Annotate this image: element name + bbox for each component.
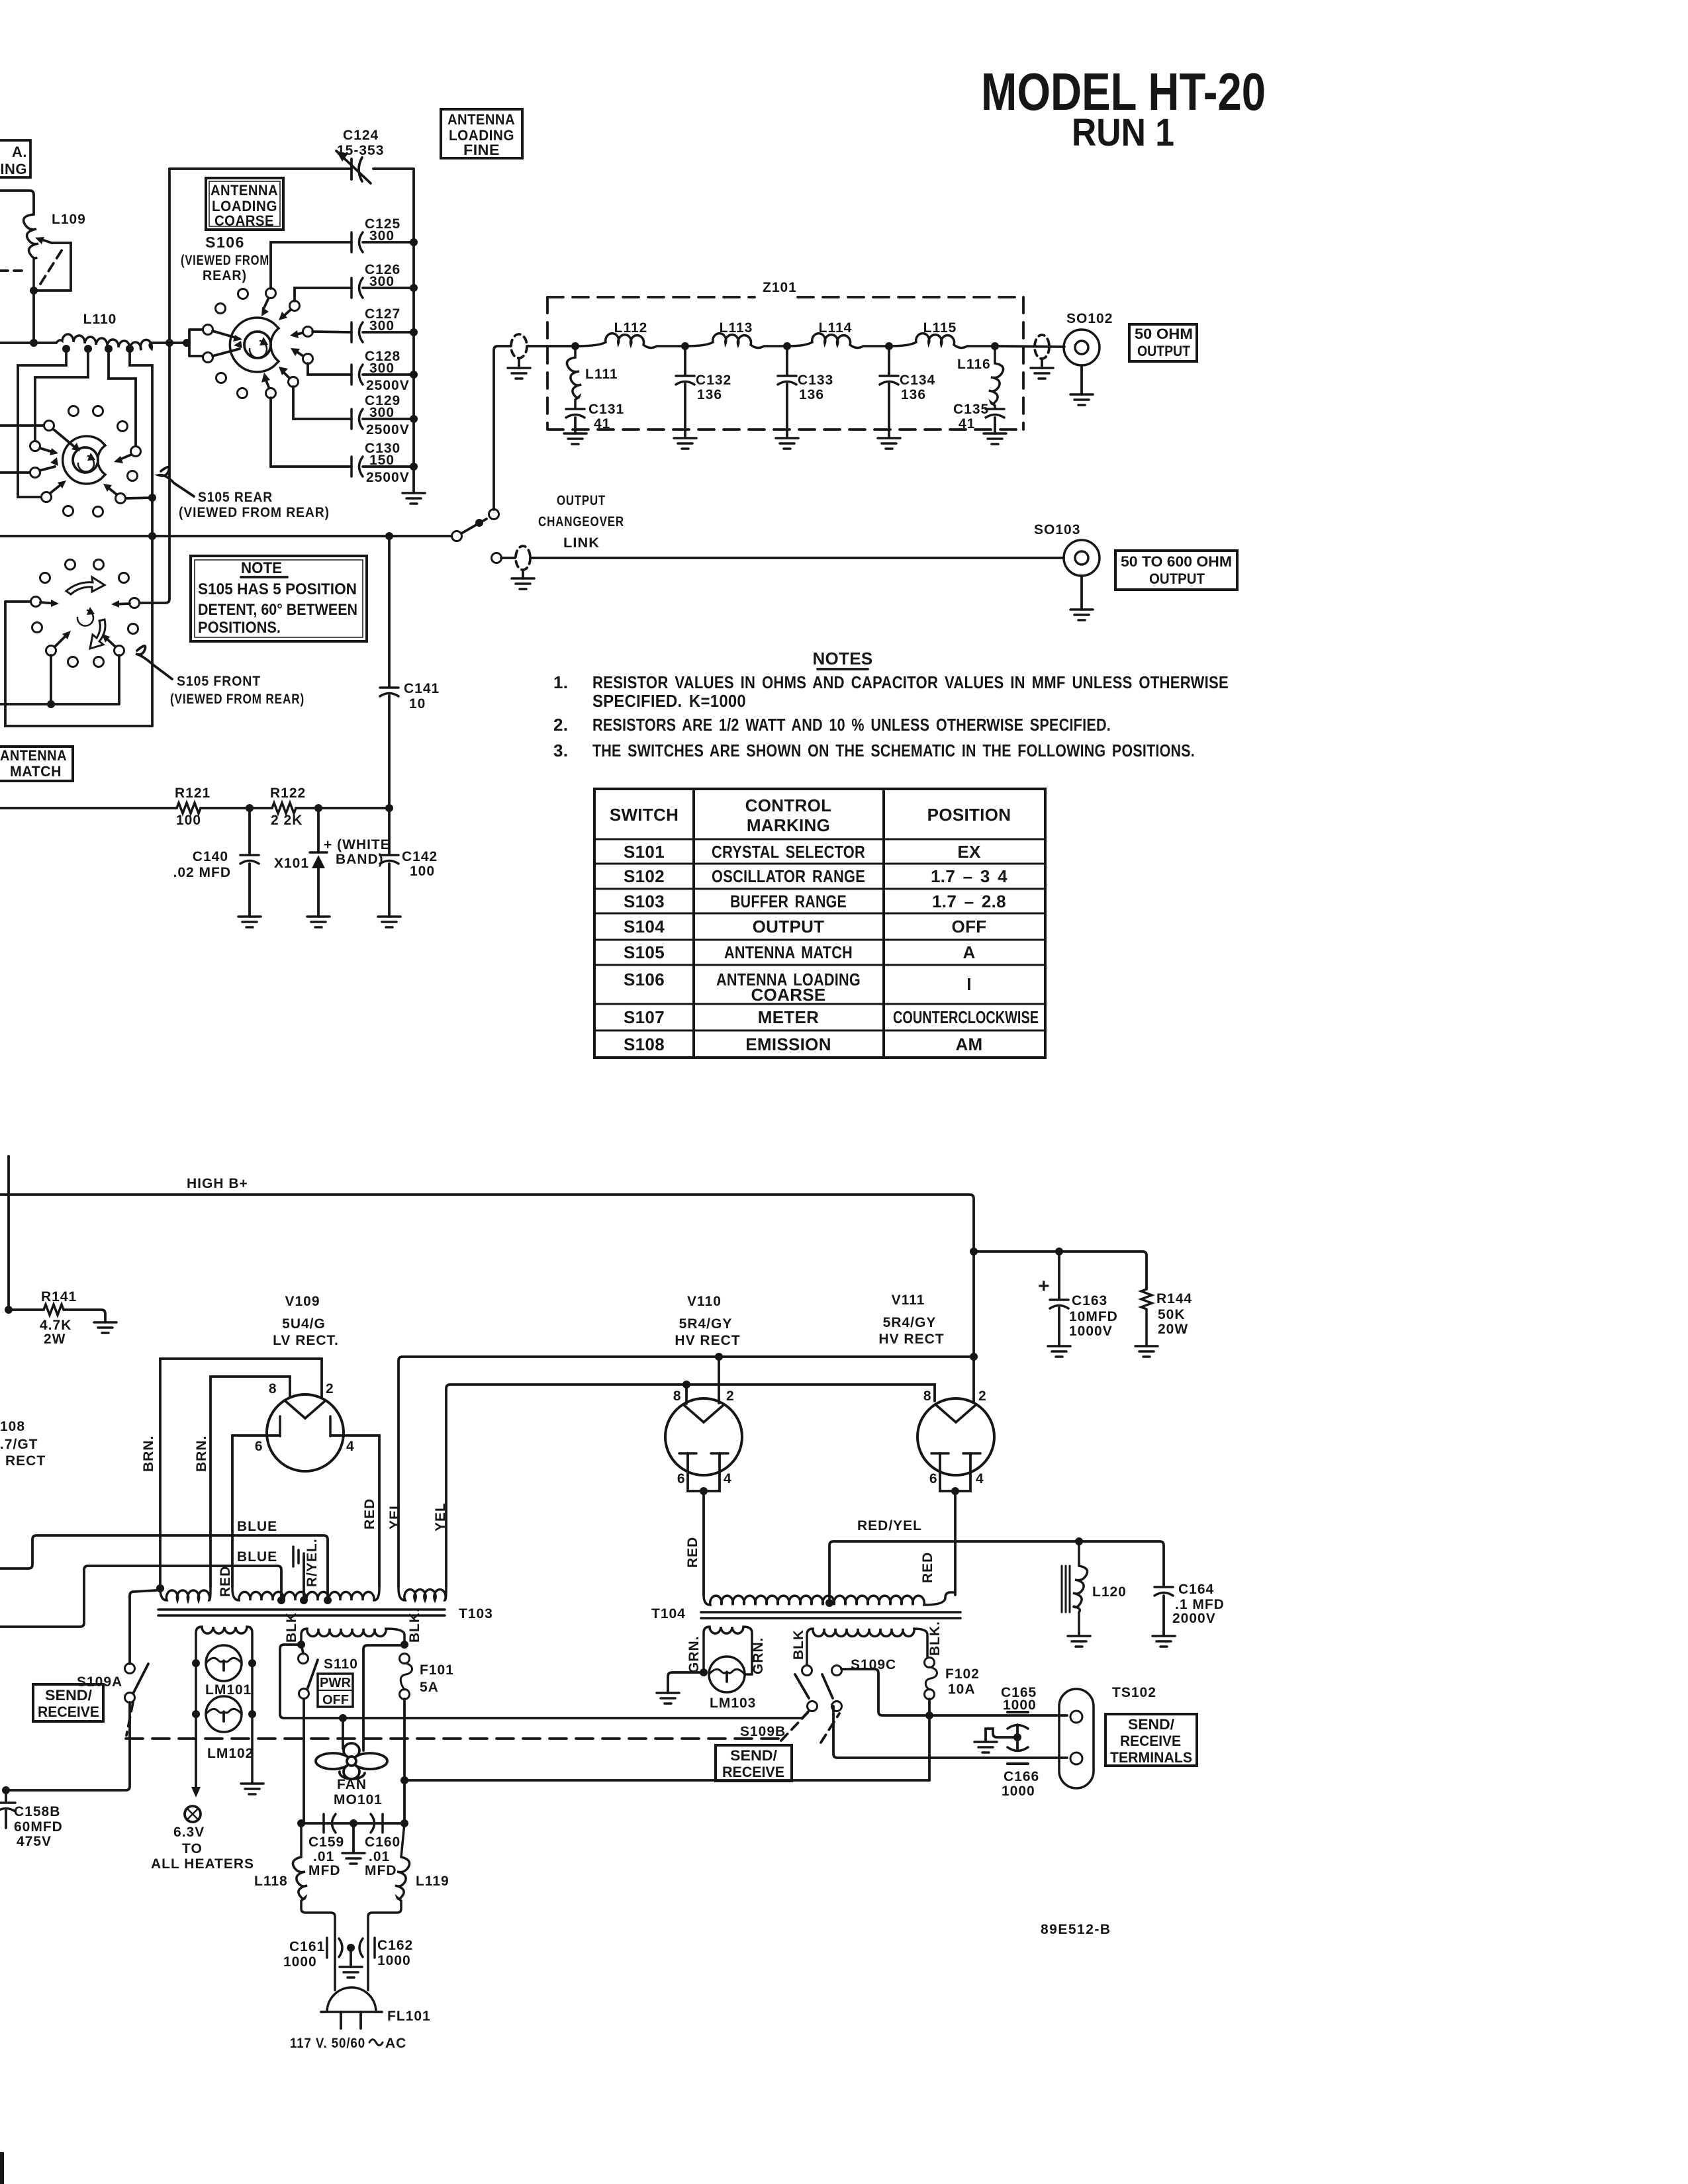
svg-text:S106: S106 [205, 234, 245, 251]
svg-text:T103: T103 [459, 1606, 493, 1621]
svg-text:136: 136 [901, 387, 926, 402]
svg-text:I: I [966, 974, 972, 994]
transformer T103 BLK winding [301, 1629, 404, 1645]
svg-text:6: 6 [929, 1471, 938, 1486]
note 3 [553, 741, 1195, 760]
resistor R144 50K 20W [1141, 1289, 1152, 1346]
svg-text:NING: NING [0, 161, 27, 177]
svg-text:RESISTOR VALUES IN OHMS AN: RESISTOR VALUES IN OHMS AND CAPACITOR VA… [592, 672, 1229, 692]
svg-text:L118: L118 [254, 1874, 288, 1889]
T104 core [701, 1612, 961, 1618]
svg-text:C164: C164 [1178, 1582, 1214, 1597]
mechanical linkage dashes S109A [126, 1702, 133, 1735]
svg-text:C163: C163 [1072, 1293, 1107, 1308]
label box (cut) A. ...NING top-left [0, 140, 30, 177]
svg-text:1000: 1000 [1003, 1698, 1037, 1713]
heater feed arrow [195, 1721, 197, 1787]
svg-text:LM103: LM103 [710, 1696, 756, 1711]
capacitor C158B 60MFD 475V (cut at edge) [5, 1790, 7, 1828]
svg-text:5A: 5A [420, 1680, 439, 1695]
svg-text:+ (WHITE: + (WHITE [324, 837, 391, 852]
svg-text:OUTPUT: OUTPUT [753, 917, 825, 936]
resistor R122 2.2K [272, 803, 296, 813]
svg-text:RECEIVE: RECEIVE [722, 1764, 784, 1780]
svg-text:S105 FRONT: S105 FRONT [177, 674, 261, 689]
svg-text:(VIEWED FROM REAR): (VIEWED FROM REAR) [170, 692, 305, 707]
svg-text:2500V: 2500V [366, 422, 410, 437]
S106 left contacts [203, 325, 213, 335]
linkage dashes to S109B/C [781, 1713, 839, 1743]
S105 front contacts unconnected [66, 560, 75, 570]
table row S105 [624, 942, 976, 962]
svg-text:4: 4 [346, 1439, 355, 1454]
svg-text:C141: C141 [404, 681, 440, 696]
L110 tap wire 3 to S105 rear [109, 349, 136, 446]
coil L116 shunt [989, 346, 1004, 408]
svg-text:89E512-B: 89E512-B [1041, 1922, 1111, 1937]
capacitor C124 15-353 (variable) [336, 151, 371, 183]
svg-text:6: 6 [677, 1471, 686, 1486]
svg-text:OUTPUT: OUTPUT [1137, 343, 1190, 359]
crystal diode X101 [317, 808, 320, 917]
transformer T103 filament winding YEL [399, 1588, 446, 1600]
svg-text:THE SWITCHES ARE SHOWN ON: THE SWITCHES ARE SHOWN ON THE SCHEMATIC … [592, 741, 1195, 760]
label box PWR OFF [318, 1674, 353, 1707]
tube V110 5R4/GY HV RECT [665, 1398, 742, 1475]
svg-text:5R4/GY: 5R4/GY [679, 1316, 733, 1332]
terminal strip TS102 [1059, 1689, 1094, 1788]
table row S101 [624, 842, 981, 862]
svg-text:2: 2 [978, 1388, 987, 1404]
S105 rear contacts connected [44, 421, 54, 431]
svg-text:L115: L115 [923, 320, 957, 336]
T103 winding taps [277, 1596, 285, 1604]
connector SO103 [1064, 540, 1100, 610]
wire horizontal output-link bus [0, 535, 452, 537]
svg-text:.1 MFD: .1 MFD [1175, 1597, 1225, 1612]
table row lines [594, 839, 1045, 1030]
feedthrough capacitor C162 1000 [359, 1938, 375, 1958]
svg-text:20W: 20W [1158, 1322, 1188, 1337]
svg-text:C124: C124 [343, 128, 379, 143]
S106 enclosure box left edge [168, 169, 171, 537]
ground below R144 [1135, 1346, 1158, 1357]
NOTES heading [812, 649, 872, 668]
svg-text:LM102: LM102 [207, 1746, 254, 1761]
junction F101 to main AC bus [400, 1776, 408, 1784]
wire Z101 to SO102 [995, 346, 1064, 347]
T104 center tap [825, 1599, 833, 1607]
svg-text:NOTE: NOTE [241, 559, 282, 577]
svg-text:SEND/: SEND/ [730, 1747, 777, 1764]
transformer T104 primary winding [704, 1592, 955, 1605]
capacitor bank rail [412, 169, 415, 493]
S106 contact to C130 [266, 388, 276, 398]
wire V109 pin8 BRN [211, 1377, 290, 1587]
svg-text:POSITIONS.: POSITIONS. [198, 619, 281, 637]
RED label V111 [920, 1552, 935, 1583]
svg-text:YEL: YEL [433, 1502, 448, 1531]
svg-text:FL101: FL101 [387, 2009, 431, 2024]
RED label V110 [685, 1537, 700, 1568]
svg-text:F102: F102 [945, 1666, 980, 1682]
svg-text:DETENT, 60° BETWEEN: DETENT, 60° BETWEEN [198, 601, 357, 619]
svg-text:C131: C131 [588, 402, 624, 417]
svg-text:L116: L116 [957, 357, 991, 372]
label box 50 OHM OUTPUT [1129, 324, 1197, 361]
ground right lamp rail [241, 1784, 263, 1794]
wire to C163 and R144 [974, 1251, 1147, 1289]
svg-text:HV RECT: HV RECT [675, 1333, 740, 1348]
note 1 [553, 672, 1229, 711]
capacitor C140 .02 MFD [248, 808, 251, 917]
label box SEND/RECEIVE middle [716, 1745, 792, 1781]
junction C141 branch [385, 532, 393, 540]
svg-text:S110: S110 [324, 1657, 358, 1672]
V110 pin drops [686, 1357, 719, 1404]
capacitor C130 150 2500V [352, 457, 363, 477]
svg-text:RED: RED [362, 1498, 377, 1529]
svg-text:(VIEWED FROM REAR): (VIEWED FROM REAR) [179, 505, 330, 520]
resistor R121 100 [177, 803, 201, 813]
S105 front wiper arrows [40, 600, 130, 647]
svg-text:V109: V109 [285, 1294, 320, 1309]
coil L118 [293, 1823, 335, 1990]
coil L110 [56, 334, 152, 350]
note 2 [553, 715, 1111, 735]
SO103 link contact [492, 553, 502, 563]
ground stub LM103 [668, 1672, 704, 1693]
S106 contact to C129 [289, 377, 299, 387]
L110 tap junctions [62, 345, 70, 353]
wire AC bus to F102 [404, 1779, 929, 1782]
svg-text:BLUE: BLUE [237, 1519, 277, 1534]
capacitor C163 10MFD 1000V [1058, 1251, 1060, 1346]
rotary switch S105 rear rotor [63, 436, 105, 484]
wire R121 to R122 [201, 807, 272, 809]
svg-text:2: 2 [726, 1388, 735, 1404]
svg-text:LINK: LINK [563, 535, 600, 551]
wire S109B to TS102 lower [833, 1706, 1067, 1758]
svg-text:2500V: 2500V [366, 378, 410, 393]
wire to S105 front left contact [5, 600, 30, 603]
svg-text:300: 300 [369, 318, 395, 334]
junction B+ to C163 branch [970, 1248, 978, 1255]
junction crossing at x230 [148, 532, 156, 540]
X-symbol 6.3V indicator [185, 1806, 201, 1822]
capacitor C126 300 [352, 278, 363, 298]
svg-text:OSCILLATOR RANGE: OSCILLATOR RANGE [712, 866, 865, 886]
svg-text:V111: V111 [892, 1293, 925, 1308]
feedthrough capacitor C165 1000 [1008, 1711, 1028, 1713]
S106 wiper feed bracket from bus [187, 330, 203, 356]
capacitor C135 41 [986, 409, 1004, 418]
fan motor MO101 [342, 1718, 344, 1749]
capacitor C132 136 [684, 346, 686, 437]
svg-text:GRN.: GRN. [751, 1637, 766, 1675]
svg-text:F101: F101 [420, 1662, 454, 1678]
svg-text:2: 2 [326, 1381, 334, 1396]
coil L109 [24, 214, 38, 291]
svg-text:PWR: PWR [320, 1676, 352, 1690]
svg-text:1000: 1000 [283, 1954, 317, 1970]
wire S109A lower to C158B [6, 1702, 130, 1790]
S105 front enclosure [5, 602, 152, 726]
svg-text:RED: RED [685, 1537, 700, 1568]
BLK labels T104 [791, 1621, 943, 1660]
svg-text:L114: L114 [819, 320, 853, 336]
svg-text:AM: AM [955, 1034, 982, 1054]
svg-text:COUNTERCLOCKWISE: COUNTERCLOCKWISE [893, 1007, 1039, 1027]
capacitor C142 100 [388, 808, 391, 917]
svg-text:S108: S108 [624, 1034, 665, 1054]
svg-text:COARSE: COARSE [751, 985, 825, 1005]
capacitor C133 136 [786, 346, 788, 437]
YEL bus 1 [399, 1357, 974, 1587]
svg-text:BLK.: BLK. [407, 1608, 422, 1643]
svg-text:CRYSTAL SELECTOR: CRYSTAL SELECTOR [712, 842, 865, 862]
svg-text:OFF: OFF [322, 1693, 349, 1707]
svg-text:5U4/G: 5U4/G [282, 1316, 326, 1332]
svg-text:FINE: FINE [463, 142, 500, 158]
tube V111 5R4/GY HV RECT [917, 1398, 994, 1475]
V109 pin numbers [255, 1381, 355, 1454]
transformer T103 primary main winding [232, 1588, 379, 1600]
svg-text:8: 8 [269, 1381, 277, 1396]
ground below C163 [1048, 1346, 1070, 1357]
svg-text:SWITCH: SWITCH [610, 805, 679, 825]
svg-text:8: 8 [923, 1388, 932, 1404]
coil L119 [368, 1823, 410, 1990]
capacitor C131 41 [566, 409, 585, 418]
svg-text:R/YEL.: R/YEL. [305, 1538, 320, 1587]
connector SO102 [1064, 330, 1100, 394]
svg-text:5R4/GY: 5R4/GY [883, 1315, 937, 1330]
ground after R141 [94, 1322, 117, 1333]
svg-text:L112: L112 [614, 320, 648, 336]
svg-text:A.: A. [12, 144, 27, 160]
svg-text:SO103: SO103 [1034, 522, 1080, 537]
svg-text:10A: 10A [948, 1682, 976, 1697]
table row S107 [624, 1007, 1039, 1027]
AC plug FL101 [321, 1987, 382, 2012]
switch S109C pole [832, 1666, 842, 1676]
corner registration mark [0, 2152, 4, 2184]
label box SEND/RECEIVE TERMINALS [1105, 1714, 1197, 1766]
svg-text:S101: S101 [624, 842, 665, 862]
S105 FRONT pointer squiggle [136, 646, 172, 679]
svg-text:136: 136 [799, 387, 824, 402]
svg-text:1.7 – 2.8: 1.7 – 2.8 [932, 891, 1006, 911]
svg-text:RED: RED [218, 1566, 233, 1597]
wire L110 to S106 [151, 341, 189, 344]
svg-text:TS102: TS102 [1112, 1685, 1156, 1700]
svg-text:475V: 475V [17, 1834, 52, 1849]
Z101 dashed enclosure [547, 297, 1023, 430]
svg-text:S107: S107 [624, 1007, 665, 1027]
table row S104 [624, 917, 986, 936]
svg-text:MFD: MFD [365, 1863, 397, 1878]
svg-text:300: 300 [369, 274, 395, 289]
svg-text:1000: 1000 [1002, 1784, 1035, 1799]
arrows from left contacts to rotor [212, 331, 242, 356]
wire V109 pin2 BRN [160, 1359, 322, 1587]
wire L109 to main bus [32, 291, 35, 343]
svg-text:150: 150 [369, 453, 395, 468]
svg-text:S105 HAS 5 POSITION: S105 HAS 5 POSITION [198, 580, 357, 598]
feedthrough insulator before SO102 [1035, 335, 1049, 359]
svg-text:RECT: RECT [5, 1453, 46, 1469]
capacitor C125 300 [352, 232, 363, 252]
svg-text:.02 MFD: .02 MFD [173, 865, 231, 880]
V110 pin numbers [673, 1388, 735, 1486]
junction on tap-4 line [148, 494, 156, 502]
switch table frame [594, 789, 1045, 1058]
svg-text:TO: TO [182, 1841, 203, 1856]
svg-text:2.: 2. [553, 715, 568, 735]
table header [610, 796, 1011, 835]
T103 core [158, 1610, 445, 1615]
wire left B+ branch [7, 1156, 10, 1310]
wire to SO103 [501, 557, 1064, 559]
pilot lamp LM101 [206, 1645, 242, 1681]
wire left edge to S105 rear contact [0, 424, 44, 427]
svg-text:A: A [962, 942, 975, 962]
wire antenna-match bus [0, 807, 177, 809]
svg-text:T104: T104 [651, 1606, 686, 1621]
svg-text:SEND/: SEND/ [1128, 1716, 1174, 1733]
svg-text:41: 41 [959, 416, 975, 432]
wire from left edge into L109 [0, 191, 34, 214]
svg-text:LM101: LM101 [205, 1682, 252, 1698]
mechanical linkage dash line S109 [126, 1737, 778, 1740]
svg-text:10: 10 [409, 696, 426, 711]
svg-text:BLK: BLK [791, 1629, 806, 1660]
AC line filter bus [301, 1822, 404, 1825]
switch S109A [125, 1664, 135, 1674]
svg-text:L113: L113 [720, 320, 753, 336]
svg-text:EX: EX [957, 842, 981, 862]
coil L113 [685, 334, 787, 348]
svg-text:BAND): BAND) [336, 852, 384, 867]
L110 tap wire 2 to S105 rear [35, 349, 88, 441]
coil L115 [889, 334, 995, 348]
ground below C132 [674, 438, 696, 449]
wire S109C to TS102 upper [841, 1669, 1067, 1715]
label box ANTENNA LOADING COARSE [206, 178, 283, 230]
fuse F102 10A [925, 1658, 935, 1668]
ground center AC filter [352, 1823, 355, 1853]
svg-text:300: 300 [369, 228, 395, 244]
label box ANTENNA MATCH [0, 747, 73, 781]
svg-text:100: 100 [410, 864, 435, 879]
svg-text:COARSE: COARSE [214, 212, 274, 229]
svg-text:METER: METER [758, 1007, 820, 1027]
6.3V TO ALL HEATERS label [151, 1825, 254, 1872]
svg-text:L111: L111 [585, 367, 618, 382]
svg-text:BRN.: BRN. [141, 1435, 156, 1472]
L110 tap wire 4 down to output changeover [130, 349, 152, 726]
svg-text:C134: C134 [900, 373, 935, 388]
transformer T104 BLK winding [807, 1629, 927, 1666]
wire S105 rear bottom contact to tap-4 line [126, 498, 152, 498]
svg-text:50 OHM: 50 OHM [1135, 326, 1193, 342]
svg-text:3.: 3. [553, 741, 568, 760]
S106 enclosure box top edge [169, 167, 414, 170]
capacitor C129 300 2500V [352, 409, 363, 429]
V111 pin numbers [923, 1388, 987, 1486]
wire main bus from left edge [0, 341, 56, 344]
svg-text:SEND/: SEND/ [45, 1687, 92, 1704]
svg-text:41: 41 [594, 416, 610, 432]
svg-text:+: + [1038, 1275, 1050, 1297]
feedthrough insulator at Z101 input [511, 334, 527, 358]
L109 slug-tuning box with dashed diagonal and arrow [35, 237, 71, 291]
wire BLUE lower [0, 1566, 281, 1627]
S105 REAR pointer squiggle [159, 467, 194, 496]
svg-text:S109B: S109B [740, 1724, 786, 1739]
table row S102 [624, 866, 1008, 886]
capacitor C141 10 [388, 536, 391, 808]
svg-text:RESISTORS ARE 1/2 WATT AN: RESISTORS ARE 1/2 WATT AND 10 % UNLESS O… [592, 715, 1111, 735]
svg-text:4: 4 [976, 1471, 984, 1486]
svg-text:2000V: 2000V [1172, 1611, 1216, 1626]
V111 cathode join [940, 1453, 970, 1595]
wire S109A to T103 primary [130, 1588, 160, 1664]
svg-text:RECEIVE: RECEIVE [1120, 1733, 1181, 1749]
wire R122 to C142 node [296, 807, 389, 809]
svg-text:S103: S103 [624, 891, 665, 911]
S105 front bottom bus [0, 655, 119, 704]
svg-text:RED/YEL: RED/YEL [857, 1518, 922, 1533]
svg-text:CHANGEOVER: CHANGEOVER [538, 514, 624, 529]
chassis ground C165/C166 [986, 1729, 1017, 1741]
ground below L120 [1068, 1636, 1090, 1647]
label box 50 TO 600 OHM OUTPUT [1115, 551, 1237, 590]
table row S103 [624, 891, 1006, 911]
svg-text:136: 136 [697, 387, 722, 402]
117V 50/60 AC label [290, 2036, 406, 2051]
svg-text:C159: C159 [308, 1835, 344, 1850]
svg-text:.7/GT: .7/GT [0, 1437, 38, 1452]
svg-text:S104: S104 [624, 917, 665, 936]
svg-text:50K: 50K [1158, 1307, 1186, 1322]
svg-text:ANTENNA MATCH: ANTENNA MATCH [724, 942, 853, 962]
svg-text:R122: R122 [270, 786, 306, 801]
partial labels V108 rect (cut at left edge) [0, 1419, 46, 1469]
svg-text:AC: AC [385, 2036, 406, 2051]
svg-text:BUFFER RANGE: BUFFER RANGE [730, 891, 847, 911]
svg-text:MO101: MO101 [334, 1792, 383, 1807]
svg-text:300: 300 [369, 361, 395, 376]
svg-text:2 2K: 2 2K [271, 813, 303, 828]
svg-text:R144: R144 [1156, 1291, 1192, 1306]
RED labels V109 [218, 1498, 377, 1597]
svg-text:6.3V: 6.3V [173, 1825, 205, 1840]
capacitor C134 136 [888, 346, 890, 437]
svg-text:50 TO 600 OHM: 50 TO 600 OHM [1121, 553, 1232, 570]
svg-text:100: 100 [176, 813, 201, 828]
ground below C135 [984, 433, 1006, 444]
net RED/YEL [829, 1541, 1164, 1603]
svg-text:OFF: OFF [952, 917, 987, 936]
BLK labels T103 [284, 1608, 422, 1643]
svg-text:SPECIFIED. K=1000: SPECIFIED. K=1000 [592, 691, 746, 711]
table row S108 [624, 1034, 982, 1054]
svg-text:1.7 – 3 4: 1.7 – 3 4 [931, 866, 1008, 886]
YEL labels [387, 1500, 448, 1531]
OUTPUT CHANGEOVER LINK label [538, 493, 624, 551]
